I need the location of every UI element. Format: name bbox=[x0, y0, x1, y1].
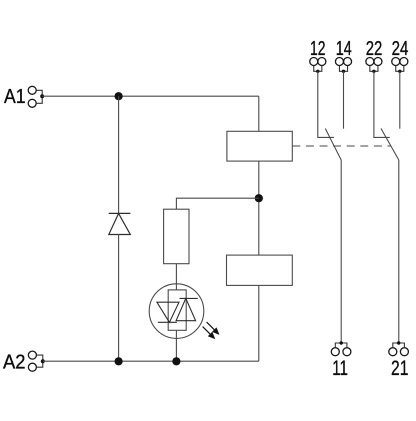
switch 2: wire from 22 (NC) bbox=[374, 71, 390, 137]
switch 1 common wire to 11 bbox=[340, 160, 342, 343]
svg-text:12: 12 bbox=[310, 38, 326, 60]
wire box2 to A2 line bbox=[258, 285, 260, 361]
terminal A2 bbox=[28, 351, 42, 371]
node junction A1/diode-branch bbox=[115, 92, 123, 100]
diode V1 bbox=[109, 213, 131, 234]
mechanical link dashed bbox=[292, 145, 391, 147]
terminal 11 bbox=[331, 343, 351, 356]
node A2/LED-branch bbox=[172, 357, 180, 365]
switch 1 blade bbox=[325, 129, 341, 161]
svg-text:A2: A2 bbox=[3, 352, 26, 374]
node A1 junction bbox=[40, 94, 44, 98]
switch 2 common wire to 21 bbox=[398, 160, 400, 343]
terminal A1 bbox=[28, 86, 42, 107]
wire coil to node bbox=[258, 161, 260, 255]
terminal 24 bbox=[392, 58, 408, 72]
LED left diode (down) bbox=[157, 302, 179, 322]
relay coil K1 bbox=[227, 131, 292, 161]
wire A2 horizontal bbox=[43, 360, 259, 362]
wire left branch vertical lower bbox=[118, 235, 120, 362]
LED light arrow 1 bbox=[207, 322, 220, 335]
node A2/diode-branch bbox=[115, 357, 123, 365]
wire coil top bbox=[258, 96, 260, 131]
svg-text:A1: A1 bbox=[4, 86, 26, 108]
wire resistor branch horizontal bbox=[176, 198, 258, 209]
svg-text:11: 11 bbox=[332, 357, 348, 380]
switch 1: wire from 12 (NC) bbox=[318, 71, 334, 137]
wire resistor to LED bbox=[175, 264, 177, 290]
LED right diode (up) bbox=[176, 298, 198, 320]
box2 output block bbox=[227, 255, 293, 285]
terminal 21 bbox=[389, 343, 409, 356]
wire LED to A2 line bbox=[175, 330, 177, 361]
LED inner rect bbox=[168, 290, 186, 330]
svg-text:21: 21 bbox=[391, 357, 408, 380]
wire left branch vertical upper bbox=[118, 96, 120, 213]
node coil/resistor junction bbox=[255, 194, 263, 202]
switch 2: wire from 24 (NO) bbox=[399, 71, 401, 128]
svg-text:14: 14 bbox=[336, 38, 352, 60]
terminal 22 bbox=[366, 58, 382, 72]
LED indicator circle bbox=[149, 284, 204, 339]
wire A1 horizontal bbox=[42, 95, 259, 97]
node A2 junction bbox=[41, 359, 45, 363]
svg-text:24: 24 bbox=[392, 38, 409, 60]
switch 2 blade bbox=[381, 129, 399, 161]
svg-text:22: 22 bbox=[366, 38, 383, 60]
terminal 14 bbox=[335, 58, 351, 72]
switch 1: wire from 14 (NO) bbox=[343, 71, 345, 128]
LED light arrow 2 bbox=[203, 327, 216, 340]
resistor R1 bbox=[164, 209, 189, 264]
terminal 12 bbox=[310, 58, 326, 72]
